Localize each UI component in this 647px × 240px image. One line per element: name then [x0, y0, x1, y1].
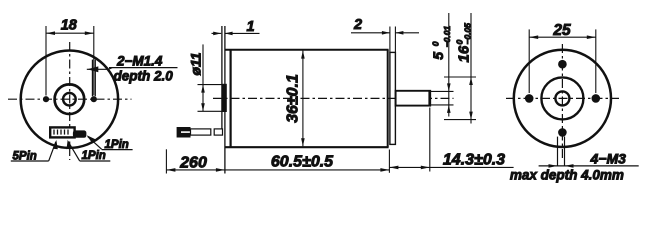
dim 5 dimension line: [448, 13, 450, 117]
dim 14.3 dimension line: [389, 166, 513, 168]
dim 16 -0.05 text rotated: [455, 23, 473, 63]
body bottom edge: [225, 146, 389, 148]
M3 hole top: [558, 60, 567, 69]
dim o11 arrow bottom: [201, 103, 205, 111]
dim 36 arrow bottom: [301, 138, 305, 146]
svg-text:−0.01: −0.01: [442, 26, 452, 48]
dim 260 arrow left: [166, 168, 175, 172]
dim 16 arrow top (inside): [469, 77, 473, 85]
svg-text:max depth 4.0mm: max depth 4.0mm: [510, 167, 624, 182]
dim 5 arrow top (outside): [447, 83, 451, 91]
dim 5 -0.01 text rotated: [430, 26, 452, 60]
body right edge: [387, 50, 389, 148]
rear boss circle (ø16): [541, 77, 583, 119]
wire connector plug: [177, 127, 191, 138]
svg-text:14.3±0.3: 14.3±0.3: [443, 152, 505, 169]
dim 25 arrow left: [529, 35, 538, 39]
1Pin middle leader: [68, 142, 79, 161]
rear shaft circle: [555, 91, 569, 105]
svg-text:1: 1: [246, 19, 254, 35]
svg-text:60.5±0.5: 60.5±0.5: [271, 154, 334, 171]
svg-text:depth 2.0: depth 2.0: [114, 68, 174, 83]
shaft outline: [396, 91, 431, 106]
body left edge: [230, 50, 232, 148]
label 1Pin right underline: [102, 149, 133, 151]
dim 25 extension line right: [595, 29, 597, 93]
dim 260 arrow right: [216, 168, 225, 172]
svg-text:25: 25: [552, 22, 571, 39]
svg-text:260: 260: [179, 154, 207, 171]
front boss (side view, solid): [222, 84, 227, 112]
dim 1 dimension line right tail with arrow: [225, 32, 260, 34]
dim 5 arrow bottom (outside): [447, 105, 451, 113]
dim 260 extension line left: [165, 149, 167, 173]
1Pin middle leader arrowhead: [67, 140, 72, 149]
vertical centerline rear view: [561, 44, 563, 159]
dim 14.3 arrow left: [389, 166, 398, 170]
front flange line 1: [221, 26, 223, 130]
wire ribbon segment 2: [214, 129, 222, 135]
front view outer circle: [21, 50, 118, 147]
label 5Pin underline: [11, 160, 49, 162]
dim 260 dimension line: [166, 169, 225, 171]
dim 18 extension line right: [93, 26, 95, 96]
leader arrowhead 2-M1.4: [87, 66, 98, 72]
body top edge: [225, 49, 389, 51]
dim 16 extension top: [444, 76, 476, 78]
dim 5 extension top: [431, 90, 454, 92]
wire ribbon segment 1: [191, 129, 211, 135]
dim 16 extension bottom: [444, 119, 476, 121]
dim o11 extension top: [198, 84, 223, 86]
dim 2 dimension line right tail with arrow: [395, 32, 419, 34]
dim 36 arrow top: [301, 51, 305, 59]
vertical centerline left view: [69, 42, 71, 160]
4-M3 arrow pointing right: [549, 164, 558, 168]
4-M3 arrow pointing left: [565, 164, 574, 168]
dim 25 dimension line: [529, 36, 596, 38]
leader line for 2-M1.4: [87, 68, 112, 70]
M1.4 tapped hole slot line right: [94, 60, 96, 97]
svg-text:−0.05: −0.05: [463, 23, 473, 45]
dim o11 dimension line: [202, 44, 204, 111]
dim 18 arrow right: [85, 31, 94, 35]
5Pin leader: [49, 142, 56, 161]
dim 60.5 dimension line: [225, 169, 390, 171]
dim 2 dimension line left tail with arrow: [351, 32, 390, 34]
dim 16 dimension line: [470, 13, 472, 124]
front boss ring (ø11): [55, 84, 85, 114]
svg-text:ø11: ø11: [188, 52, 204, 75]
svg-text:18: 18: [61, 18, 78, 34]
rear view outer circle: [514, 50, 611, 147]
connector body (5 pin): [50, 127, 74, 137]
svg-text:36±0.1: 36±0.1: [285, 74, 302, 123]
dim 25 arrow right: [587, 35, 596, 39]
M1.4 hole right (filled): [91, 96, 97, 102]
svg-text:2−M1.4: 2−M1.4: [116, 53, 163, 68]
connector latch block (solid): [73, 130, 87, 137]
dim 18 extension line left: [45, 26, 47, 96]
connector pin teeth: [53, 130, 55, 135]
dim 36 text rotated: [285, 74, 302, 123]
front shaft circle: [63, 93, 76, 106]
1Pin right leader arrowhead: [87, 135, 96, 143]
svg-text:16: 16: [456, 45, 473, 62]
dim 5 extension bottom: [431, 104, 454, 106]
horizontal centerline left view: [8, 98, 132, 100]
5Pin leader arrowhead: [53, 140, 58, 149]
dim 16 arrow bottom (inside): [469, 112, 473, 120]
M3 hole right: [592, 94, 601, 103]
svg-text:2: 2: [353, 17, 362, 33]
extension line body right for 60.5/14.3: [388, 150, 390, 173]
dim o11 text rotated: [188, 52, 204, 75]
label 2-M1.4 underline: [109, 67, 178, 69]
label 1Pin middle underline: [80, 160, 111, 162]
M3 hole bottom: [558, 128, 567, 137]
shaft end cap: [428, 90, 431, 106]
M3 tapped slot line left: [557, 137, 559, 166]
4-M3 leader line: [539, 165, 639, 167]
svg-text:0: 0: [430, 41, 440, 46]
svg-text:1Pin: 1Pin: [82, 150, 106, 162]
dim 18 dimension line: [46, 32, 94, 34]
dim 25 extension line left: [528, 29, 530, 93]
dim 60.5 arrow right: [380, 168, 389, 172]
dim 18 arrow left: [46, 31, 55, 35]
front flange line 2 / extension for 60.5: [224, 26, 226, 174]
M1.4 tapped hole slot line left: [91, 60, 93, 97]
svg-text:5: 5: [430, 52, 446, 60]
dim o11 extension bottom: [198, 110, 223, 112]
dim o11 arrow top: [201, 85, 205, 93]
wire plug slit: [181, 131, 191, 133]
dim 36 dimension line: [302, 51, 304, 147]
dim 2 extension lines: [389, 27, 391, 53]
dim 1 dimension line left tail with arrow: [212, 32, 222, 34]
horizontal centerline rear view: [506, 97, 619, 99]
svg-text:4−M3: 4−M3: [590, 150, 627, 166]
1Pin right leader: [88, 136, 102, 149]
rear plate rectangle: [390, 52, 396, 144]
M1.4 hole left (filled): [43, 96, 49, 102]
extension line shaft tip for 14.3: [429, 108, 431, 172]
M3 hole left: [525, 94, 534, 103]
dim 14.3 arrow right: [421, 166, 430, 170]
middle view centerline: [213, 97, 454, 99]
M3 tapped slot line right: [564, 137, 566, 166]
